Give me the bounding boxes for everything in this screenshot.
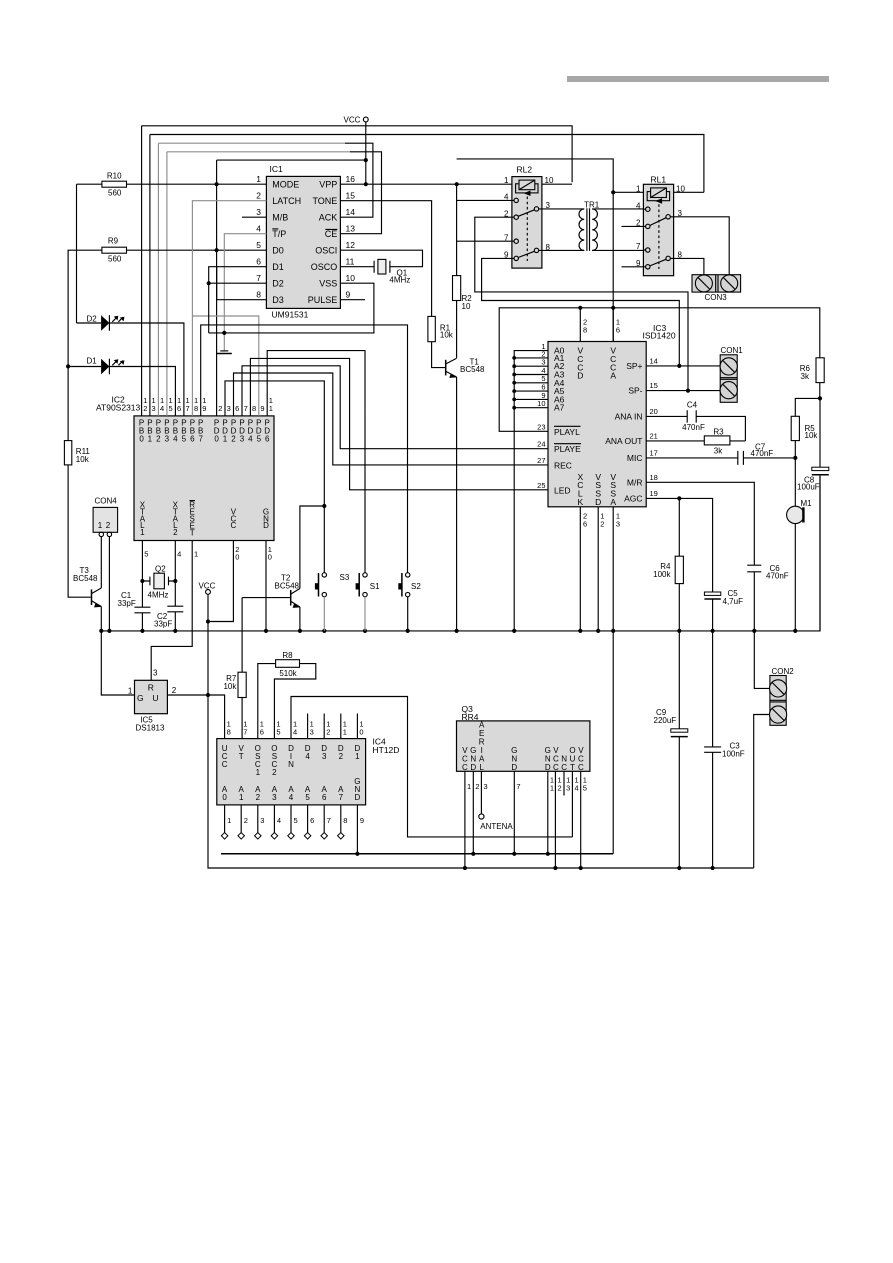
svg-text:2: 2 [231, 435, 236, 444]
svg-text:VCC: VCC [198, 581, 215, 590]
svg-text:12: 12 [346, 240, 356, 250]
svg-text:2: 2 [326, 728, 330, 737]
svg-text:11: 11 [346, 257, 355, 267]
svg-text:CE: CE [325, 229, 338, 239]
svg-text:6: 6 [177, 404, 181, 413]
svg-text:M/R: M/R [627, 477, 643, 487]
svg-text:20: 20 [650, 407, 658, 416]
svg-text:7: 7 [504, 233, 509, 242]
svg-text:2: 2 [504, 209, 509, 218]
svg-text:AGC: AGC [624, 493, 642, 503]
svg-text:2: 2 [244, 816, 248, 825]
svg-text:4: 4 [504, 193, 509, 202]
svg-text:UM91531: UM91531 [272, 310, 309, 320]
svg-text:C: C [578, 763, 584, 772]
svg-text:6: 6 [256, 257, 261, 267]
svg-text:9: 9 [202, 404, 206, 413]
svg-text:BC548: BC548 [275, 581, 300, 590]
svg-text:6: 6 [190, 435, 195, 444]
svg-text:D: D [511, 763, 517, 772]
svg-text:L: L [479, 763, 484, 772]
svg-text:A7: A7 [554, 403, 565, 413]
svg-text:PLAYL: PLAYL [554, 427, 580, 437]
svg-text:1: 1 [256, 174, 261, 184]
svg-text:1: 1 [343, 728, 347, 737]
svg-text:9: 9 [636, 259, 641, 268]
svg-text:T: T [570, 763, 575, 772]
svg-text:4: 4 [277, 816, 281, 825]
svg-text:D: D [545, 763, 551, 772]
svg-text:RR4: RR4 [462, 712, 479, 722]
svg-text:1: 1 [227, 816, 231, 825]
svg-text:3: 3 [566, 784, 570, 793]
svg-text:1: 1 [223, 435, 228, 444]
svg-text:5: 5 [144, 550, 148, 559]
svg-text:24: 24 [537, 440, 545, 449]
svg-text:D: D [577, 371, 583, 381]
svg-text:4: 4 [173, 435, 178, 444]
svg-text:10: 10 [676, 184, 685, 193]
svg-text:27: 27 [537, 456, 545, 465]
svg-text:8: 8 [678, 250, 683, 259]
svg-text:2: 2 [256, 191, 261, 201]
svg-text:9: 9 [360, 816, 364, 825]
svg-text:10: 10 [346, 273, 356, 283]
svg-text:U: U [152, 693, 158, 703]
svg-text:D: D [470, 763, 476, 772]
svg-text:33pF: 33pF [154, 619, 172, 628]
svg-text:8: 8 [252, 404, 256, 413]
svg-text:N: N [288, 760, 294, 769]
svg-text:PLAYE: PLAYE [554, 444, 581, 454]
svg-text:C: C [462, 763, 468, 772]
svg-text:4: 4 [177, 550, 181, 559]
svg-text:15: 15 [346, 191, 356, 201]
svg-text:14: 14 [346, 207, 356, 217]
svg-text:MIC: MIC [627, 453, 643, 463]
svg-text:3: 3 [272, 793, 277, 802]
svg-text:1: 1 [355, 752, 360, 761]
svg-text:HT12D: HT12D [373, 745, 400, 755]
svg-text:D2: D2 [272, 279, 284, 289]
svg-text:VCC: VCC [344, 116, 361, 125]
svg-text:3k: 3k [801, 372, 810, 381]
svg-text:R10: R10 [107, 172, 122, 181]
svg-text:4: 4 [160, 404, 164, 413]
svg-text:D: D [263, 521, 269, 530]
svg-text:10k: 10k [805, 431, 819, 440]
svg-text:6: 6 [616, 326, 620, 335]
svg-text:REC: REC [554, 460, 572, 470]
svg-text:19: 19 [650, 489, 658, 498]
svg-text:BC548: BC548 [460, 365, 485, 374]
svg-text:C: C [231, 521, 237, 530]
svg-text:6: 6 [235, 404, 239, 413]
svg-text:4: 4 [575, 784, 579, 793]
svg-text:2: 2 [272, 768, 277, 777]
svg-text:SP-: SP- [628, 386, 642, 396]
svg-text:17: 17 [650, 449, 658, 458]
svg-text:3: 3 [153, 668, 158, 677]
svg-text:C: C [553, 763, 559, 772]
svg-text:M/B: M/B [272, 213, 288, 223]
svg-text:D3: D3 [272, 295, 284, 305]
svg-text:OSCO: OSCO [311, 262, 338, 272]
svg-text:A: A [610, 497, 616, 507]
svg-text:18: 18 [650, 473, 658, 482]
svg-text:25: 25 [537, 481, 545, 490]
svg-text:D1: D1 [272, 262, 284, 272]
svg-text:1: 1 [550, 784, 554, 793]
svg-text:1: 1 [636, 184, 641, 193]
svg-text:8: 8 [194, 404, 198, 413]
svg-text:3: 3 [256, 207, 261, 217]
svg-text:2: 2 [475, 782, 479, 791]
svg-text:D0: D0 [272, 246, 284, 256]
svg-text:2: 2 [558, 784, 562, 793]
svg-text:33pF: 33pF [118, 599, 136, 608]
svg-text:4: 4 [293, 728, 297, 737]
svg-text:1: 1 [98, 521, 103, 530]
svg-text:LATCH: LATCH [272, 196, 301, 206]
svg-text:D: D [355, 793, 361, 802]
svg-text:CON1: CON1 [721, 346, 744, 355]
svg-text:7: 7 [339, 793, 344, 802]
svg-text:3k: 3k [714, 446, 723, 455]
svg-text:5: 5 [583, 784, 587, 793]
svg-text:7: 7 [516, 782, 520, 791]
svg-text:7: 7 [327, 816, 331, 825]
svg-text:9: 9 [260, 404, 264, 413]
svg-text:1: 1 [194, 550, 198, 559]
svg-text:D: D [595, 497, 601, 507]
svg-text:ISD1420: ISD1420 [643, 331, 676, 341]
svg-text:5: 5 [169, 404, 173, 413]
svg-text:LED: LED [554, 485, 571, 495]
svg-text:S3: S3 [340, 573, 350, 582]
svg-text:OSCI: OSCI [315, 246, 337, 256]
svg-text:4: 4 [256, 224, 261, 234]
svg-text:VSS: VSS [319, 279, 337, 289]
svg-text:TR1: TR1 [584, 200, 600, 209]
svg-text:C: C [222, 760, 228, 769]
svg-text:7: 7 [243, 728, 247, 737]
svg-text:M1: M1 [801, 499, 813, 508]
svg-text:CON4: CON4 [95, 496, 118, 505]
svg-text:DS1813: DS1813 [136, 724, 165, 733]
svg-text:8: 8 [583, 326, 587, 335]
svg-text:VPP: VPP [319, 180, 337, 190]
svg-text:7: 7 [244, 404, 248, 413]
svg-text:7: 7 [636, 242, 641, 251]
svg-text:7: 7 [256, 273, 261, 283]
svg-text:8: 8 [256, 290, 261, 300]
svg-text:6: 6 [260, 728, 264, 737]
svg-text:5: 5 [182, 435, 187, 444]
svg-text:BC548: BC548 [73, 574, 98, 583]
svg-text:T: T [239, 752, 244, 761]
svg-text:R3: R3 [713, 427, 724, 436]
svg-text:10k: 10k [440, 330, 454, 339]
svg-text:4MHz: 4MHz [148, 590, 169, 599]
svg-text:10k: 10k [76, 455, 90, 464]
svg-text:220uF: 220uF [654, 716, 677, 725]
svg-text:2: 2 [173, 528, 178, 537]
svg-text:4: 4 [305, 752, 310, 761]
svg-text:5: 5 [276, 728, 280, 737]
svg-text:5: 5 [256, 240, 261, 250]
svg-text:9: 9 [346, 290, 351, 300]
svg-text:0: 0 [214, 435, 219, 444]
svg-text:15: 15 [650, 381, 658, 390]
svg-text:1: 1 [239, 793, 244, 802]
svg-text:SP+: SP+ [626, 361, 642, 371]
svg-text:6: 6 [583, 519, 587, 528]
svg-text:CON2: CON2 [772, 667, 795, 676]
svg-text:C: C [561, 763, 567, 772]
svg-text:ACK: ACK [319, 213, 338, 223]
svg-text:1: 1 [504, 176, 509, 185]
svg-text:2: 2 [156, 435, 161, 444]
svg-text:21: 21 [650, 432, 658, 441]
svg-text:0: 0 [222, 793, 227, 802]
svg-text:3: 3 [260, 816, 264, 825]
svg-text:23: 23 [537, 422, 545, 431]
svg-text:3: 3 [310, 728, 314, 737]
svg-text:9: 9 [504, 251, 509, 260]
svg-text:8: 8 [343, 816, 347, 825]
svg-text:3: 3 [616, 519, 620, 528]
svg-text:AT90S2313: AT90S2313 [96, 403, 141, 413]
svg-text:6: 6 [265, 435, 270, 444]
svg-text:5: 5 [294, 816, 298, 825]
svg-text:TONE: TONE [312, 196, 337, 206]
svg-text:560: 560 [108, 254, 122, 263]
svg-text:100nF: 100nF [722, 749, 745, 758]
svg-text:1: 1 [140, 528, 145, 537]
svg-text:10k: 10k [223, 682, 237, 691]
svg-text:4MHz: 4MHz [389, 275, 410, 284]
svg-text:4: 4 [248, 435, 253, 444]
svg-text:1: 1 [256, 768, 261, 777]
svg-text:Q2: Q2 [155, 565, 166, 574]
svg-text:1: 1 [467, 782, 471, 791]
svg-text:470nF: 470nF [682, 423, 705, 432]
svg-text:10: 10 [545, 176, 554, 185]
svg-text:10: 10 [537, 399, 545, 408]
svg-text:4,7uF: 4,7uF [723, 597, 744, 606]
svg-text:560: 560 [108, 188, 122, 197]
svg-text:3: 3 [484, 782, 488, 791]
svg-text:0: 0 [359, 728, 363, 737]
svg-text:D1: D1 [87, 357, 98, 366]
svg-text:100k: 100k [653, 570, 671, 579]
svg-text:3: 3 [322, 752, 327, 761]
svg-text:A: A [610, 371, 616, 381]
svg-text:100uF: 100uF [797, 482, 820, 491]
svg-text:5: 5 [257, 435, 262, 444]
svg-text:2: 2 [218, 404, 222, 413]
svg-text:2: 2 [636, 219, 641, 228]
svg-text:MODE: MODE [272, 180, 299, 190]
svg-text:8: 8 [227, 728, 231, 737]
svg-text:16: 16 [346, 174, 356, 184]
svg-text:510k: 510k [279, 669, 297, 678]
svg-text:R: R [148, 683, 154, 693]
svg-text:0: 0 [139, 435, 144, 444]
svg-text:7: 7 [198, 435, 203, 444]
svg-text:S1: S1 [370, 582, 380, 591]
svg-text:0: 0 [235, 552, 239, 561]
svg-text:5: 5 [305, 793, 310, 802]
svg-text:3: 3 [152, 404, 156, 413]
svg-text:CON3: CON3 [705, 293, 728, 302]
svg-text:T/P: T/P [272, 229, 286, 239]
svg-text:7: 7 [186, 404, 190, 413]
svg-text:1: 1 [269, 404, 273, 413]
svg-text:S2: S2 [411, 582, 421, 591]
svg-text:1: 1 [148, 435, 153, 444]
svg-text:ANA IN: ANA IN [615, 411, 643, 421]
svg-text:C4: C4 [687, 400, 698, 409]
svg-text:0: 0 [268, 552, 272, 561]
svg-text:2: 2 [600, 519, 604, 528]
svg-text:K: K [577, 497, 583, 507]
svg-text:3: 3 [165, 435, 170, 444]
svg-text:3: 3 [678, 209, 683, 218]
svg-text:R9: R9 [108, 237, 119, 246]
svg-text:2: 2 [106, 521, 111, 530]
svg-text:2: 2 [143, 404, 147, 413]
svg-text:D2: D2 [87, 315, 98, 324]
svg-text:2: 2 [172, 686, 177, 695]
svg-text:6: 6 [322, 793, 327, 802]
svg-text:3: 3 [240, 435, 245, 444]
svg-text:2: 2 [256, 793, 261, 802]
svg-text:ANTENA: ANTENA [480, 822, 513, 831]
svg-text:RL1: RL1 [651, 174, 667, 184]
svg-text:T: T [190, 528, 195, 537]
svg-text:6: 6 [310, 816, 314, 825]
svg-text:470nF: 470nF [766, 572, 789, 581]
svg-text:1: 1 [128, 686, 133, 695]
svg-text:PULSE: PULSE [308, 295, 338, 305]
svg-text:3: 3 [227, 404, 231, 413]
svg-text:10: 10 [462, 302, 471, 311]
svg-text:RL2: RL2 [517, 165, 533, 175]
svg-text:R8: R8 [282, 651, 293, 660]
svg-text:4: 4 [289, 793, 294, 802]
svg-text:13: 13 [346, 224, 356, 234]
svg-text:2: 2 [339, 752, 344, 761]
svg-text:G: G [137, 693, 144, 703]
svg-text:14: 14 [650, 357, 658, 366]
svg-text:IC1: IC1 [270, 164, 284, 174]
svg-text:ANA OUT: ANA OUT [605, 436, 642, 446]
svg-text:4: 4 [636, 201, 641, 210]
svg-text:470nF: 470nF [751, 449, 774, 458]
